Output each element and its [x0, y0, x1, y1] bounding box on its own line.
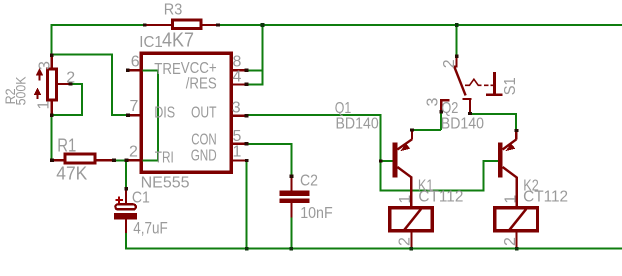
S1 pin 2 stub	[456, 56, 458, 67]
Q1 emitter lead	[411, 131, 413, 139]
svg-text:BD140: BD140	[336, 115, 379, 132]
wire pin6 to TRI inside box	[143, 70, 159, 160]
wire rail to DIS pin7	[52, 55, 128, 115]
node C2 rail junction	[290, 247, 294, 251]
relay K1 coil	[390, 208, 433, 248]
node R1 rail junction	[50, 159, 54, 162]
junction dots green	[245, 23, 519, 250]
svg-text:2: 2	[66, 70, 75, 87]
wire pot pin2 loop	[52, 84, 82, 115]
pin 6 stub	[127, 69, 142, 71]
svg-text:2: 2	[129, 143, 138, 160]
wire R1 to pin2 junction to TRI	[114, 159, 143, 161]
pin 3 stub	[232, 115, 246, 117]
node pin7 end	[126, 114, 130, 117]
pin 4 stub	[232, 83, 246, 85]
wire S1 pin2 from top rail	[456, 24, 458, 56]
wire OUT net pin3 to Q1 Q2 bases	[247, 115, 499, 190]
pin 2 stub	[128, 159, 143, 161]
node pot pin2 end	[69, 82, 73, 85]
svg-text:2: 2	[441, 59, 458, 68]
wire C2 bottom to rail	[290, 217, 292, 249]
wire bottom rail GND	[125, 248, 622, 250]
node pin8 end	[245, 69, 249, 72]
junction dots dark	[50, 23, 519, 190]
svg-text:IC1: IC1	[139, 34, 163, 51]
switch S1	[440, 56, 502, 114]
node pin6 end	[126, 69, 130, 72]
Q2 collector	[503, 167, 518, 178]
svg-text:1: 1	[502, 195, 519, 204]
svg-text:1: 1	[36, 101, 53, 110]
svg-text:BD140: BD140	[441, 116, 484, 133]
svg-text:VCC+: VCC+	[181, 60, 217, 77]
wire left rail	[51, 24, 53, 160]
svg-text:4,7uF: 4,7uF	[133, 219, 168, 238]
svg-text:500K: 500K	[12, 76, 28, 106]
S1 pin 3 contact	[440, 100, 449, 111]
Q1 collector	[397, 167, 412, 178]
wire S1 pin3 to Q1 emitter	[412, 112, 441, 130]
node pin5 end	[245, 142, 249, 145]
node C1 top lead	[124, 187, 128, 190]
wire pin5 to C2	[246, 144, 291, 177]
svg-text:/RES: /RES	[186, 76, 217, 93]
resistor R1	[52, 154, 114, 163]
node K1 rail junction	[410, 247, 414, 251]
node rail DIS junction	[50, 53, 54, 56]
capacitor C2	[279, 176, 309, 218]
pot wiper arrow lower	[37, 94, 39, 100]
potentiometer R2	[34, 57, 71, 114]
IC box IC1 NE555	[141, 53, 231, 172]
node R1 right pin end	[112, 159, 116, 162]
svg-text:2: 2	[502, 237, 519, 246]
S1 plunger	[486, 72, 502, 95]
svg-text:C1: C1	[132, 190, 150, 207]
wire top rail VCC	[51, 24, 622, 26]
svg-text:2: 2	[397, 237, 414, 246]
Q2 emitter lead	[515, 131, 517, 139]
node S1 common end	[468, 112, 472, 115]
pin 5 stub	[232, 143, 246, 145]
svg-text:5: 5	[233, 128, 242, 145]
node Q1 base tap	[379, 159, 383, 162]
wire S1 common to Q2 emitter	[471, 114, 516, 131]
node R3 right pin end	[216, 23, 220, 26]
svg-text:S1: S1	[502, 77, 519, 95]
transistor Q2 BD140	[498, 131, 517, 207]
wire pin8 pin4 to top rail	[246, 24, 263, 85]
svg-text:7: 7	[130, 98, 139, 115]
svg-text:4K7: 4K7	[162, 30, 194, 52]
S1 lever contact tick	[452, 65, 457, 67]
Q1 emitter arrow	[400, 144, 410, 152]
pin 1 stub	[232, 159, 246, 161]
node pot loop junction	[50, 113, 54, 116]
svg-text:C2: C2	[300, 173, 318, 190]
svg-text:4: 4	[233, 68, 242, 85]
node R3 left pin end	[143, 23, 147, 26]
svg-text:DIS: DIS	[154, 105, 175, 122]
capacitor C1 electrolytic	[114, 189, 137, 234]
svg-text:GND: GND	[191, 147, 217, 164]
svg-text:3: 3	[37, 61, 54, 70]
pin 8 stub	[232, 69, 246, 71]
wire C1 bottom to rail	[125, 232, 127, 249]
svg-text:1: 1	[233, 144, 242, 161]
node top rail S1 junction	[455, 23, 459, 27]
S1 lever	[454, 67, 465, 96]
node pin1 end	[245, 159, 249, 162]
node pin1 rail junction	[245, 247, 249, 251]
wire OUT tap to Q1 base	[381, 160, 393, 162]
node Q2 emitter pin end	[515, 129, 519, 132]
node top rail pin8 junction	[261, 23, 265, 27]
svg-text:CT112: CT112	[523, 189, 568, 206]
node C1 pin2 junction	[124, 159, 128, 162]
svg-text:CT112: CT112	[418, 189, 463, 206]
node C2 top lead	[290, 175, 294, 178]
Q2 emitter arrow	[505, 144, 515, 152]
svg-text:R1: R1	[57, 136, 76, 156]
svg-text:TRI: TRI	[155, 149, 174, 166]
svg-text:10nF: 10nF	[300, 205, 333, 222]
pot wiper arrow upper	[39, 74, 41, 81]
S1 common contact	[463, 99, 472, 114]
svg-text:3: 3	[425, 98, 442, 107]
resistor R3	[144, 20, 218, 28]
pin 7 stub	[129, 114, 141, 116]
svg-text:OUT: OUT	[191, 105, 217, 122]
node S1 pin2 end	[455, 55, 459, 58]
svg-text:47K: 47K	[56, 164, 87, 184]
C1 plus sign	[116, 196, 124, 203]
wire pin1 GND down	[246, 161, 248, 249]
node pin3 end	[245, 114, 249, 117]
svg-text:CON: CON	[191, 132, 217, 149]
svg-text:6: 6	[131, 54, 140, 71]
svg-text:3: 3	[232, 100, 241, 117]
node K2 rail junction	[515, 247, 519, 251]
svg-text:TRE: TRE	[154, 61, 181, 78]
svg-text:R3: R3	[164, 2, 183, 19]
svg-text:1: 1	[397, 195, 414, 204]
node pin4 end	[245, 83, 249, 86]
relay K2 coil	[495, 208, 538, 248]
node Q1 emitter pin end	[410, 128, 414, 131]
transistor Q1 BD140	[393, 131, 412, 207]
node S1 pin3 end	[439, 110, 443, 113]
S1 spring line	[465, 79, 494, 85]
wire junction C1 down	[125, 159, 127, 189]
